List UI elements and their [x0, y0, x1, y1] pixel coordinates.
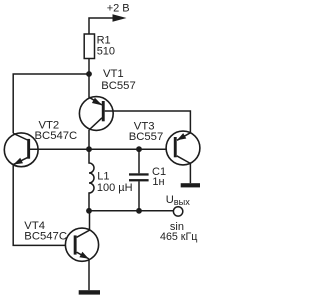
transistor VT2 (NPN BC547C) — [4, 133, 38, 167]
wire: VT1 collector down to tank node — [88, 130, 90, 150]
svg-text:VT1: VT1 — [103, 68, 124, 80]
svg-text:BC547C: BC547C — [24, 231, 67, 243]
transistor VT4 (NPN BC547C) — [65, 228, 98, 261]
transistor VT3 (PNP BC557) — [166, 131, 200, 165]
ground (under VT4) — [79, 290, 100, 294]
wire: VT2 emitter down and right to VT4 base — [13, 165, 73, 246]
wire: node to VT2 collector (left rail top) — [13, 74, 89, 133]
power arrow +2 V — [113, 14, 127, 22]
wire: VT1 base to VT3 emitter — [105, 111, 191, 133]
node: junction R1 / VT1 emitter / feedback to VT2 collector — [86, 71, 92, 77]
svg-text:BC557: BC557 — [129, 131, 164, 143]
wire: VT4 collector up to output rail — [89, 211, 91, 230]
transistor VT1 (PNP BC557) — [79, 97, 113, 131]
svg-text:Uвых: Uвых — [166, 194, 191, 207]
ground (under VT3) — [181, 183, 200, 187]
wire: VT4 emitter to ground — [88, 259, 90, 290]
node: junction output rail / C1 — [136, 208, 142, 214]
wire: VT3 collector to ground — [189, 163, 191, 183]
wire: output rail (L1/C1 bottom to output terminal) — [89, 210, 174, 212]
svg-text:100 µH: 100 µH — [97, 182, 133, 194]
inductor L1 — [89, 149, 94, 211]
node: junction output rail / L1 / VT4 collector — [86, 208, 92, 214]
wire: R1 bottom to VT1 emitter — [88, 59, 90, 98]
svg-text:+2 В: +2 В — [107, 3, 130, 15]
resistor R1 — [84, 34, 94, 59]
svg-text:510: 510 — [97, 45, 115, 57]
svg-text:BC547C: BC547C — [35, 130, 78, 142]
node: junction tank rail / L1 / VT1 collector — [86, 146, 92, 152]
svg-text:L1: L1 — [97, 170, 109, 182]
node: junction tank rail / C1 — [136, 146, 142, 152]
svg-text:465 кГц: 465 кГц — [160, 231, 197, 243]
svg-text:1н: 1н — [152, 176, 164, 188]
wire: tank rail from VT2 base to VT3 base — [30, 148, 174, 150]
capacitor C1 — [129, 149, 149, 211]
svg-text:BC557: BC557 — [101, 80, 136, 92]
wire: supply rail from R1 top — [89, 18, 113, 34]
output terminal Uвых — [173, 207, 182, 216]
